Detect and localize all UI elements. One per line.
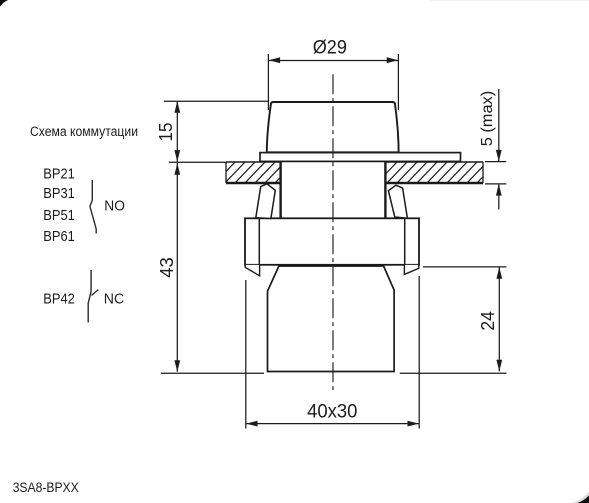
svg-text:24: 24	[477, 311, 498, 331]
shaft left wall	[279, 162, 281, 219]
svg-text:5 (max): 5 (max)	[479, 91, 496, 147]
centerline (axis)	[332, 74, 334, 390]
shaft right wall	[384, 162, 386, 219]
spring clip left	[256, 184, 275, 219]
label BP51	[43, 208, 75, 224]
dimension 5 (max)	[485, 89, 506, 210]
collar inner edge left	[258, 218, 260, 264]
lower body	[268, 266, 395, 372]
svg-text:Ø29: Ø29	[313, 37, 347, 58]
svg-text:BP51: BP51	[43, 208, 75, 224]
scan artifact: top edge faint line	[430, 0, 589, 1]
bezel tab left	[245, 265, 259, 276]
label BP42	[43, 291, 75, 307]
dimension 43	[161, 163, 264, 373]
panel left (hatched)	[214, 161, 296, 184]
svg-text:BP21: BP21	[43, 166, 75, 182]
dimension Ø29	[268, 54, 398, 110]
NC contact symbol	[88, 270, 98, 323]
collar inner edge right	[404, 218, 406, 264]
label NC	[104, 290, 125, 307]
label BP31	[43, 186, 75, 202]
panel right (hatched)	[376, 161, 498, 184]
mounting collar	[245, 218, 419, 264]
part number 3SA8-BPXX	[13, 480, 79, 495]
title text: Схема коммутации	[30, 124, 138, 140]
label BP61	[43, 229, 75, 245]
dimension 15	[164, 101, 269, 162]
dimension 40x30	[246, 276, 419, 429]
svg-text:NO: NO	[104, 198, 125, 215]
svg-text:40x30: 40x30	[307, 401, 357, 422]
label NO	[104, 198, 125, 215]
scan artifact: top-left corner blob	[0, 0, 8, 7]
svg-text:15: 15	[155, 123, 176, 142]
svg-text:Схема коммутации: Схема коммутации	[30, 124, 138, 140]
button cap	[267, 102, 399, 152]
svg-text:BP61: BP61	[43, 229, 75, 245]
bezel tab right	[404, 265, 418, 275]
NO contact symbol	[90, 180, 96, 234]
flange plate	[260, 153, 461, 162]
scan artifact: bottom-right corner blob	[572, 492, 589, 503]
label BP21	[43, 166, 75, 182]
dimension 24	[400, 267, 507, 373]
svg-text:43: 43	[156, 257, 177, 278]
svg-text:BP42: BP42	[43, 291, 75, 307]
svg-text:NC: NC	[104, 290, 125, 307]
svg-text:BP31: BP31	[43, 186, 75, 202]
svg-text:3SA8-BPXX: 3SA8-BPXX	[13, 480, 79, 495]
spring clip right	[388, 185, 407, 218]
